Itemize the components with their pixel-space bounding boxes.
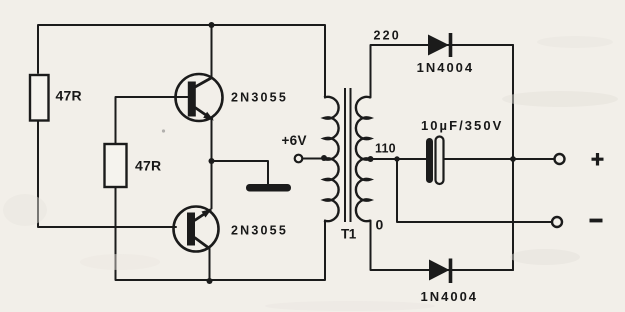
svg-text:0: 0 <box>376 217 384 233</box>
wire: top rail from R1 top to primary top <box>38 25 325 98</box>
wire: secondary 220 end to diode D1 <box>371 45 514 98</box>
wire: Q1 emitter to Q2 emitter vertical <box>211 120 213 209</box>
svg-text:T1: T1 <box>341 227 357 242</box>
node: Q2 collector / bottom rail <box>207 278 213 284</box>
svg-text:1N4004: 1N4004 <box>417 60 475 75</box>
terminal plus output <box>555 154 565 164</box>
svg-text:2N3055: 2N3055 <box>231 90 288 104</box>
svg-text:2N3055: 2N3055 <box>231 224 288 238</box>
svg-text:220: 220 <box>374 29 401 43</box>
wire: emitter node to battery bar <box>212 161 269 184</box>
transformer core <box>345 88 351 222</box>
resistor R1 47R <box>30 75 49 121</box>
terminal minus output <box>552 217 562 227</box>
node: plus line / rectifier bus <box>510 156 516 162</box>
node: 110 line / minus branch <box>394 156 399 161</box>
wire: +6V terminal to primary center tap <box>302 158 324 160</box>
wire: minus branch from 110 node <box>397 159 552 222</box>
wire: capacitor to plus terminal <box>442 158 555 160</box>
node: emitters junction <box>209 158 215 164</box>
transistor Q2 2N3055 <box>174 207 219 252</box>
svg-text:1N4004: 1N4004 <box>421 289 479 304</box>
node: secondary 110 tap <box>368 156 374 162</box>
wire: rectifier bus vertical <box>512 45 514 270</box>
svg-text:47R: 47R <box>135 157 161 173</box>
wire: R2 bottom to bottom rail and primary bottom <box>116 187 326 280</box>
node: primary center tap <box>321 155 327 161</box>
diode D1 1N4004 <box>428 33 451 57</box>
transformer T1 secondary winding <box>356 97 371 221</box>
capacitor C1 10uF/350V <box>426 137 444 185</box>
wire: secondary 0 end to diode D2 <box>371 221 514 271</box>
svg-text:110: 110 <box>375 141 396 155</box>
minus sign <box>590 219 603 223</box>
transistor Q1 2N3055 <box>176 74 223 121</box>
wire: 110 tap to capacitor <box>371 158 429 160</box>
resistor R2 47R <box>105 144 127 187</box>
wire: left vertical below R1 to Q2 base <box>38 121 176 228</box>
wire: Q2 collector vertical <box>209 249 211 282</box>
wire: Q1 collector vertical <box>211 25 213 78</box>
diode D2 1N4004 <box>429 259 451 284</box>
svg-text:10µF/350V: 10µF/350V <box>421 118 503 133</box>
node: top rail / Q1 collector <box>209 22 215 28</box>
battery negative bar (emitter return) <box>246 184 291 192</box>
plus sign <box>592 153 604 166</box>
transformer T1 primary winding <box>324 97 339 221</box>
wire: Q1 base to R2 top <box>116 97 191 144</box>
svg-text:+6V: +6V <box>282 133 307 148</box>
terminal +6V <box>295 155 303 163</box>
svg-text:47R: 47R <box>56 87 82 103</box>
